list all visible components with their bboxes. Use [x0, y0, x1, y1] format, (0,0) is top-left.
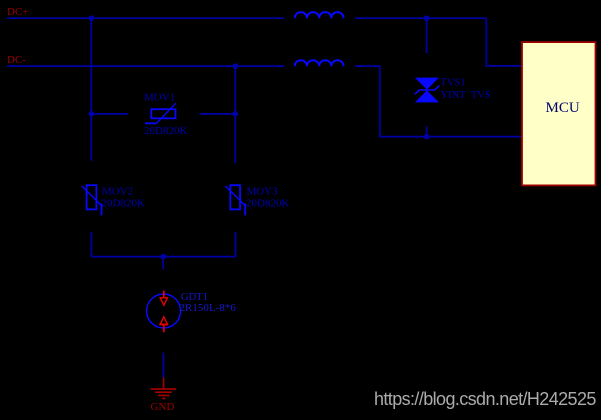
wire MOV2 bottom drop: [90, 232, 92, 257]
junction bottom bus center: [160, 254, 166, 260]
label MOV1 designator: [144, 92, 175, 104]
wire MOV row left segment: [91, 113, 128, 115]
junction on DC- run at TVS bottom: [424, 134, 430, 140]
wire MOV3 bottom drop: [235, 232, 237, 257]
svg-text:20D820K: 20D820K: [246, 198, 289, 210]
varistor MOV1: [145, 103, 176, 123]
wire DC+ right segment: [355, 17, 486, 19]
svg-text:MOV2: MOV2: [102, 186, 133, 198]
inductor L2: [295, 60, 344, 66]
ground symbol: [151, 378, 176, 399]
wire GND drop: [163, 353, 165, 378]
varistor MOV2: [82, 185, 102, 215]
wire TVS bottom stub: [426, 126, 428, 136]
svg-text:TVS1: TVS1: [441, 78, 466, 89]
MCU block U1: [522, 42, 596, 185]
wire bottom bus: [91, 256, 235, 258]
junction on DC- at right branch: [233, 63, 239, 69]
label TVS1 value YINT TVS: [441, 90, 491, 101]
junction on DC+ at left branch: [89, 15, 95, 21]
label GND: [151, 401, 175, 413]
svg-text:MOV3: MOV3: [247, 186, 279, 198]
label MOV2 value 20D820K: [102, 197, 145, 209]
label MOV2 designator: [102, 186, 133, 198]
label TVS1 designator: [441, 78, 466, 89]
wire DC+ left segment: [7, 17, 284, 19]
wire left vertical branch: [90, 18, 92, 161]
label MOV3 designator: [247, 186, 279, 198]
wire MOV row right segment: [200, 113, 236, 115]
svg-text:20D820K: 20D820K: [102, 197, 145, 209]
svg-text:20D820K: 20D820K: [144, 125, 187, 137]
gas discharge tube GDT1: [147, 291, 181, 333]
wire GDT top stub: [162, 257, 164, 270]
transient suppressor TVS1 symbol: [415, 78, 439, 103]
svg-text:MOV1: MOV1: [144, 92, 175, 104]
svg-text:GND: GND: [151, 401, 175, 413]
svg-text:MCU: MCU: [546, 100, 580, 116]
wire DC- right segment to corner and MCU pin 2: [355, 66, 522, 137]
watermark https://blog.csdn.net/H242525: [374, 390, 596, 409]
wire TVS top stub: [426, 18, 428, 53]
svg-text:DC+: DC+: [7, 6, 28, 18]
svg-text:2R150L-8*6: 2R150L-8*6: [180, 302, 237, 314]
junction on DC+ at TVS branch: [424, 15, 430, 21]
wire corner down to MCU pin 1: [486, 18, 522, 66]
svg-text:DC-: DC-: [7, 54, 26, 66]
wire right vertical branch: [234, 66, 236, 163]
junction MOV row right: [233, 111, 239, 117]
label MOV3 value 20D820K: [246, 198, 289, 210]
junction MOV row left: [89, 111, 95, 117]
inductor L1: [295, 12, 344, 18]
label GDT1 value 2R150L-8*6: [180, 302, 237, 314]
label MOV1 value 20D820K: [144, 125, 187, 137]
varistor MOV3: [225, 185, 245, 215]
node DC- label: [7, 54, 26, 66]
wire DC- left segment: [7, 65, 284, 67]
label GDT1 designator: [181, 292, 208, 303]
svg-text:YINT TVS: YINT TVS: [441, 90, 491, 101]
node DC+ label: [7, 6, 28, 18]
